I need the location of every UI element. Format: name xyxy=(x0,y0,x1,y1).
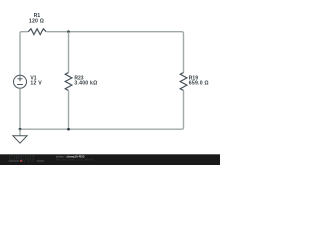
resistor R1 xyxy=(28,29,46,35)
node junction dot bottom middle (R23 bottom) xyxy=(67,128,70,131)
watermark bar xyxy=(0,154,220,165)
resistor R23 xyxy=(65,73,72,91)
ground stub wire xyxy=(19,129,21,136)
wire middle branch upper xyxy=(68,32,70,73)
node junction dot top (R23 top) xyxy=(67,30,70,33)
svg-text:LAB: LAB xyxy=(24,159,36,163)
wire top rail left segment xyxy=(20,32,28,34)
wire left rail lower xyxy=(19,88,21,129)
svg-text:120 Ω: 120 Ω xyxy=(29,19,44,25)
svg-text:12 V: 12 V xyxy=(30,81,42,87)
wire bottom rail xyxy=(20,128,182,130)
svg-text:659.0 Ω: 659.0 Ω xyxy=(189,81,209,87)
wire right rail lower xyxy=(182,91,184,130)
wire left rail upper xyxy=(19,33,21,75)
resistor R19 xyxy=(180,73,187,91)
watermark CircuitLab logo xyxy=(9,155,45,163)
node junction dot bottom-left (ground node) xyxy=(19,128,22,131)
wire middle branch lower xyxy=(68,91,70,130)
ground symbol xyxy=(13,136,27,144)
svg-text:3.400 kΩ: 3.400 kΩ xyxy=(74,81,97,87)
wire top rail right segment xyxy=(46,32,183,34)
voltage source V1 xyxy=(14,75,27,88)
wire right rail upper xyxy=(183,34,185,73)
svg-text:http://circuitlab.com/c/6fkzv9: http://circuitlab.com/c/6fkzv9 xyxy=(56,158,94,162)
